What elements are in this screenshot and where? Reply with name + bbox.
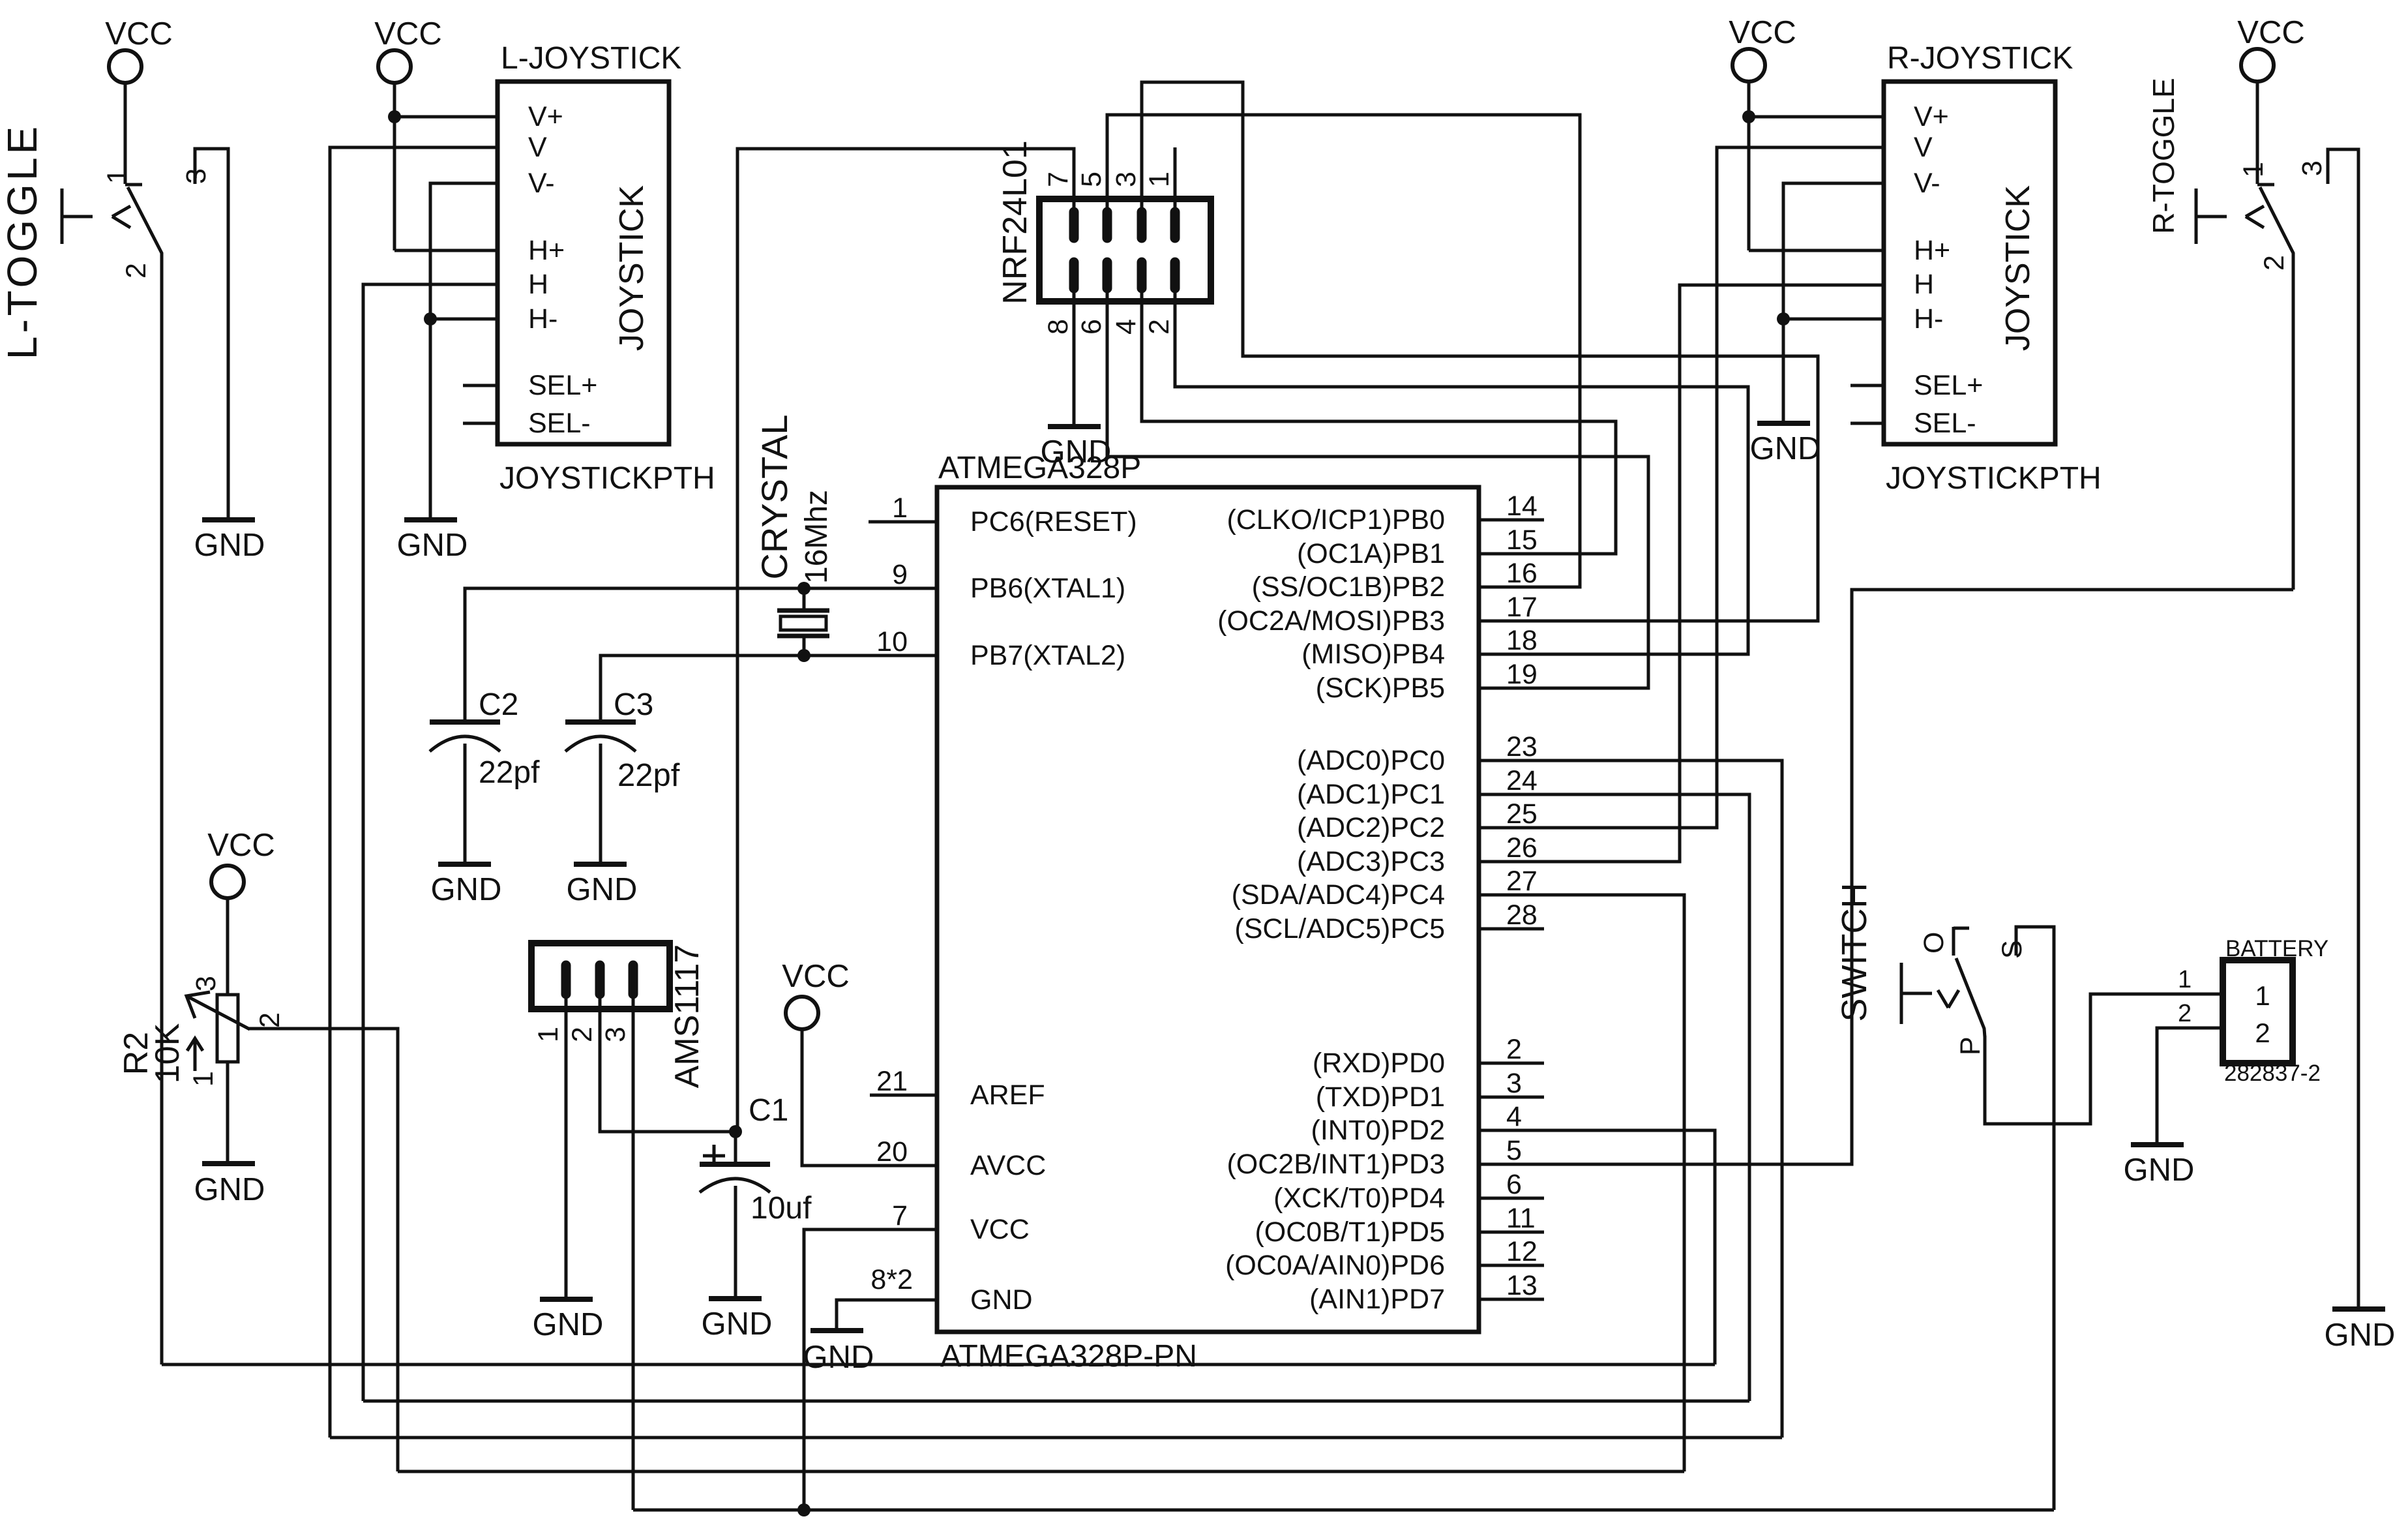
svg-text:20: 20 — [876, 1136, 908, 1168]
wire ATMEGA pin 4 PD2 to bus A — [1544, 1130, 1715, 1365]
wire H- junction to GND — [429, 319, 432, 517]
wire bus C L-JOYSTICK V to PC0 — [330, 1436, 1782, 1440]
wire H to left then down to bus B — [363, 284, 498, 1401]
switch lever — [1956, 958, 1985, 1037]
wire C3 to XTAL2 — [601, 656, 937, 722]
wire NRF pin 5 to ATMEGA pin 16 — [1107, 115, 1580, 587]
wire V to left then down to bus C — [330, 147, 498, 1438]
svg-text:H: H — [1914, 269, 1934, 300]
svg-text:AMS1117: AMS1117 — [668, 944, 706, 1089]
ATMEGA pin 21 AREF stub — [870, 1094, 937, 1097]
ATMEGA pin 25 PC2 stub — [1479, 826, 1544, 830]
ground L-JOYSTICK — [404, 517, 457, 522]
wire R V to ATMEGA pin 25 — [1544, 147, 1884, 828]
ATMEGA pin 14 PB0 stub — [1479, 519, 1544, 522]
ATMEGA pin 4 PD2 stub — [1479, 1129, 1544, 1132]
wire XTAL2 net pin 10 — [601, 654, 937, 657]
VCC port (R-TOGGLE) — [2241, 49, 2274, 82]
wire L-TOGGLE pin 3 to GND — [195, 149, 228, 517]
svg-text:(XCK/T0)PD4: (XCK/T0)PD4 — [1273, 1183, 1445, 1214]
svg-text:C3: C3 — [614, 687, 653, 722]
wire R2 wiper to bus D — [248, 1029, 398, 1471]
wire R-TOGGLE pin 3 to GND far bottom right — [2328, 149, 2358, 1306]
R2 adjust arrow — [194, 1041, 197, 1071]
wire C2 to GND — [464, 744, 467, 862]
ATMEGA pin 7 VCC stub — [870, 1228, 937, 1231]
R2 wiper arrow — [186, 996, 250, 1029]
ATMEGA pin 5 PD3 stub — [1479, 1163, 1544, 1166]
svg-text:9: 9 — [892, 559, 908, 590]
ATMEGA pin 20 AVCC stub — [870, 1164, 937, 1168]
svg-text:(SDA/ADC4)PC4: (SDA/ADC4)PC4 — [1232, 879, 1445, 911]
junction dot R VCC/V+ — [1742, 110, 1755, 123]
svg-text:18: 18 — [1506, 625, 1538, 656]
wire VCC to R-TOGGLE pin 1 — [2256, 82, 2259, 184]
svg-text:(SCL/ADC5)PC5: (SCL/ADC5)PC5 — [1234, 913, 1445, 944]
toggle R-TOGGLE lever — [2260, 187, 2293, 261]
svg-text:JOYSTICKPTH: JOYSTICKPTH — [499, 461, 715, 496]
svg-text:2: 2 — [2178, 1000, 2192, 1027]
svg-text:(MISO)PB4: (MISO)PB4 — [1301, 639, 1445, 670]
wire R2 pin 1 to GND — [226, 1062, 230, 1161]
svg-text:SEL+: SEL+ — [1914, 370, 1983, 401]
svg-text:5: 5 — [1506, 1135, 1522, 1166]
svg-text:2: 2 — [254, 1012, 286, 1028]
svg-text:(SCK)PB5: (SCK)PB5 — [1316, 672, 1445, 704]
wire VCC stem down to H+ — [1747, 82, 1751, 250]
svg-text:S: S — [1997, 940, 2028, 959]
toggle L-TOGGLE lever — [128, 187, 162, 261]
wire V- down to H- — [430, 183, 498, 319]
svg-text:V+: V+ — [1914, 101, 1949, 132]
svg-text:L-JOYSTICK: L-JOYSTICK — [501, 41, 681, 76]
switch pin O stub — [1952, 927, 1955, 956]
wire ATMEGA pin 27 PC4 to bus D — [1544, 895, 1684, 1471]
ATMEGA pin 1 PC6(RESET) stub — [869, 520, 937, 524]
ATMEGA pin 6 PD4 stub — [1479, 1197, 1544, 1200]
R-JOYSTICK SEL- stub — [1851, 422, 1884, 425]
toggle L-TOGGLE actuator — [61, 188, 64, 244]
junction dot crystal bottom — [797, 649, 810, 662]
svg-text:8*2: 8*2 — [870, 1264, 913, 1295]
svg-text:GND: GND — [194, 528, 265, 563]
wire C2 to XTAL1 — [465, 588, 937, 722]
wire switch P to battery pin 1 — [1985, 994, 2223, 1124]
svg-text:2: 2 — [121, 263, 152, 279]
ground ATMEGA 8*2 — [810, 1328, 863, 1333]
svg-text:SEL-: SEL- — [528, 408, 591, 439]
svg-text:H: H — [528, 269, 548, 300]
wire R H- — [1783, 318, 1884, 321]
wire H+ — [394, 249, 498, 252]
ATMEGA pin 9 PB6(XTAL1) stub — [869, 587, 937, 590]
svg-text:AVCC: AVCC — [970, 1150, 1046, 1181]
svg-text:(OC0A/AIN0)PD6: (OC0A/AIN0)PD6 — [1225, 1250, 1445, 1281]
svg-text:10uf: 10uf — [751, 1191, 812, 1226]
svg-text:5: 5 — [1076, 172, 1107, 187]
C1 plus sign — [703, 1154, 725, 1158]
svg-text:(OC2B/INT1)PD3: (OC2B/INT1)PD3 — [1226, 1149, 1445, 1180]
wire NRF pin 8 to GND — [1073, 288, 1076, 424]
svg-text:1: 1 — [2238, 162, 2269, 177]
wire R-TOGGLE pin 2 down — [2292, 260, 2295, 590]
svg-text:22pf: 22pf — [479, 755, 540, 790]
svg-text:(ADC3)PC3: (ADC3)PC3 — [1297, 846, 1445, 877]
svg-text:ATMEGA328P-PN: ATMEGA328P-PN — [940, 1339, 1197, 1374]
wire C3 to GND — [599, 744, 602, 862]
svg-text:(OC0B/T1)PD5: (OC0B/T1)PD5 — [1255, 1216, 1445, 1248]
ground battery — [2131, 1142, 2184, 1147]
svg-text:O: O — [1918, 932, 1950, 954]
junction dot bus E VCC — [797, 1503, 810, 1516]
svg-text:VCC: VCC — [374, 16, 441, 52]
svg-text:PB7(XTAL2): PB7(XTAL2) — [970, 640, 1125, 671]
wire ATMEGA pin 23 PC0 to bus C — [1544, 761, 1782, 1438]
svg-text:2: 2 — [2255, 1018, 2270, 1048]
ATMEGA pin 10 PB7(XTAL2) stub — [869, 654, 937, 657]
toggle R-TOGGLE pin 1 tick — [2257, 183, 2274, 187]
AMS1117 pin slots — [561, 965, 571, 994]
ground C2 — [438, 862, 491, 867]
svg-text:BATTERY: BATTERY — [2225, 936, 2328, 961]
svg-text:6: 6 — [1506, 1169, 1522, 1200]
svg-text:23: 23 — [1506, 731, 1538, 762]
connector NRF24L01 box — [1039, 199, 1211, 301]
svg-text:28: 28 — [1506, 899, 1538, 931]
svg-text:3: 3 — [1110, 172, 1142, 187]
VCC port (R-JOYSTICK) — [1732, 49, 1765, 82]
ATMEGA pin 19 PB5 stub — [1479, 687, 1544, 690]
svg-text:SEL+: SEL+ — [528, 370, 597, 401]
svg-text:6: 6 — [1076, 319, 1107, 335]
svg-text:3: 3 — [190, 976, 222, 991]
IC ATMEGA328P box — [937, 487, 1479, 1332]
ground AMS1117 pin 1 — [540, 1297, 593, 1302]
NRF24L01 pin slots bottom row — [1069, 262, 1079, 288]
svg-text:GND: GND — [2325, 1318, 2396, 1353]
ground C1 — [709, 1296, 762, 1301]
svg-text:22pf: 22pf — [617, 758, 680, 793]
svg-text:1: 1 — [188, 1071, 219, 1087]
wire V+ — [394, 115, 498, 119]
capacitor C2 — [430, 719, 500, 725]
svg-text:NRF24L01: NRF24L01 — [996, 140, 1034, 304]
wire R H to ATMEGA pin 26 — [1544, 285, 1884, 862]
svg-text:14: 14 — [1506, 490, 1538, 522]
regulator AMS1117 box — [531, 943, 670, 1009]
svg-text:ATMEGA328P: ATMEGA328P — [938, 451, 1141, 485]
svg-text:R-TOGGLE: R-TOGGLE — [2147, 78, 2180, 234]
L-JOYSTICK SEL+ stub — [463, 384, 498, 387]
wire R V- down to H- — [1783, 183, 1884, 319]
ATMEGA pin 15 PB1 stub — [1479, 552, 1544, 556]
wire bus D R2 wiper to PC4 — [398, 1470, 1684, 1473]
svg-text:7: 7 — [1043, 172, 1074, 187]
svg-text:VCC: VCC — [782, 959, 849, 994]
svg-text:GND: GND — [1750, 431, 1821, 466]
wire H- — [430, 318, 498, 321]
svg-text:(INT0)PD2: (INT0)PD2 — [1311, 1115, 1445, 1146]
svg-text:H-: H- — [1914, 303, 1943, 335]
svg-text:VCC: VCC — [2237, 15, 2304, 50]
ATMEGA pin 27 PC4 stub — [1479, 894, 1544, 897]
svg-text:JOYSTICK: JOYSTICK — [1999, 185, 2037, 352]
wire NRF pin 3 to ATMEGA pin 17 — [1142, 82, 1818, 621]
svg-text:(AIN1)PD7: (AIN1)PD7 — [1309, 1284, 1445, 1315]
svg-text:2: 2 — [567, 1027, 598, 1042]
wire NRF pin 1 stub up — [1174, 147, 1177, 212]
ATMEGA pin 18 PB4 stub — [1479, 653, 1544, 656]
svg-text:4: 4 — [1110, 319, 1142, 335]
svg-text:V: V — [528, 132, 547, 163]
wire VCC to R2 pin 3 — [226, 898, 230, 995]
svg-text:10K: 10K — [149, 1023, 186, 1083]
connector R-JOYSTICK box — [1884, 82, 2055, 444]
ground C3 — [574, 862, 627, 867]
VCC port (R2) — [211, 866, 244, 898]
ATMEGA pin 13 PD7 stub — [1479, 1298, 1544, 1301]
ground NRF pin 8 — [1048, 424, 1101, 429]
svg-text:282837-2: 282837-2 — [2224, 1061, 2321, 1086]
svg-text:PB6(XTAL1): PB6(XTAL1) — [970, 573, 1125, 604]
svg-text:SEL-: SEL- — [1914, 408, 1976, 439]
wire AMS1117 pin 2 to C1 junction — [600, 994, 736, 1132]
svg-text:V: V — [1914, 132, 1933, 163]
VCC port (AVCC) — [786, 997, 818, 1029]
svg-text:15: 15 — [1506, 524, 1538, 556]
svg-text:(CLKO/ICP1)PB0: (CLKO/ICP1)PB0 — [1226, 504, 1445, 535]
svg-text:PC6(RESET): PC6(RESET) — [970, 506, 1137, 537]
svg-text:CRYSTAL: CRYSTAL — [754, 414, 795, 579]
ATMEGA pin 24 PC1 stub — [1479, 793, 1544, 796]
wire AMS1117 pin 1 to GND — [565, 994, 568, 1297]
svg-text:(ADC0)PC0: (ADC0)PC0 — [1297, 745, 1445, 776]
VCC port (L-JOYSTICK) — [378, 50, 411, 83]
wire NRF pin 4 to ATMEGA pin 15 — [1142, 288, 1616, 554]
svg-text:1: 1 — [892, 492, 908, 524]
NRF24L01 pin slots top row — [1069, 212, 1079, 238]
junction dot crystal top — [797, 582, 810, 595]
junction dot R H-/V- — [1777, 312, 1790, 325]
wire AMS1117 pin 3 to bus E — [632, 994, 635, 1510]
svg-text:(RXD)PD0: (RXD)PD0 — [1313, 1048, 1445, 1079]
svg-text:11: 11 — [1506, 1203, 1536, 1234]
wire ATMEGA pin 5 PD3 to R-TOGGLE pin 2 — [1544, 590, 2293, 1164]
R-JOYSTICK SEL+ stub — [1851, 384, 1884, 387]
potentiometer R2 body — [217, 995, 238, 1062]
svg-text:JOYSTICKPTH: JOYSTICKPTH — [1886, 461, 2102, 496]
wire bus A L-TOGGLE to PD2 — [162, 1363, 1715, 1366]
svg-text:GND: GND — [533, 1307, 604, 1342]
ground R-TOGGLE pin 3 — [2332, 1306, 2385, 1312]
ATMEGA pin 26 PC3 stub — [1479, 860, 1544, 864]
svg-text:R-JOYSTICK: R-JOYSTICK — [1887, 41, 2073, 76]
svg-text:27: 27 — [1506, 866, 1538, 897]
svg-text:C2: C2 — [479, 687, 518, 722]
wire ATMEGA pin 24 PC1 to bus B — [1544, 794, 1749, 1401]
svg-text:H-: H- — [528, 303, 557, 335]
junction dot VCC/V+ — [388, 110, 401, 123]
svg-text:V+: V+ — [528, 101, 563, 132]
svg-text:L-TOGGLE: L-TOGGLE — [0, 123, 46, 359]
svg-text:(OC2A/MOSI)PB3: (OC2A/MOSI)PB3 — [1217, 605, 1445, 637]
ATMEGA pin 8 GND stub — [870, 1299, 937, 1302]
capacitor C1 polarized — [734, 1132, 737, 1164]
svg-text:VCC: VCC — [207, 828, 275, 863]
svg-text:VCC: VCC — [105, 16, 172, 52]
svg-text:19: 19 — [1506, 659, 1538, 690]
ATMEGA pin 17 PB3 stub — [1479, 620, 1544, 623]
ground L-TOGGLE pin 3 — [202, 517, 255, 522]
svg-text:C1: C1 — [749, 1093, 788, 1128]
svg-text:V-: V- — [528, 168, 555, 199]
svg-text:1: 1 — [1144, 172, 1175, 187]
svg-text:AREF: AREF — [970, 1079, 1045, 1111]
wire switch S to bus E — [2016, 927, 2054, 1510]
ground R-JOYSTICK — [1757, 421, 1810, 426]
wire battery pin 2 to GND — [2157, 1028, 2223, 1142]
svg-text:21: 21 — [876, 1066, 908, 1097]
svg-text:1: 1 — [533, 1027, 564, 1042]
svg-text:1: 1 — [102, 168, 133, 184]
wire R V+ — [1749, 115, 1884, 119]
ATMEGA pin 16 PB2 stub — [1479, 586, 1544, 589]
wire ATMEGA GND pin to ground — [837, 1300, 937, 1328]
svg-text:17: 17 — [1506, 592, 1538, 623]
svg-text:GND: GND — [194, 1172, 265, 1207]
svg-text:VCC: VCC — [970, 1214, 1030, 1245]
capacitor C3 — [565, 719, 636, 725]
svg-text:12: 12 — [1506, 1236, 1538, 1267]
svg-text:16Mhz: 16Mhz — [799, 490, 834, 584]
svg-text:3: 3 — [2297, 160, 2328, 176]
svg-text:V-: V- — [1914, 168, 1940, 199]
wire bus B L-JOYSTICK H to PC1 — [363, 1400, 1749, 1403]
svg-text:2: 2 — [1144, 319, 1175, 335]
junction dot H-/V- — [424, 312, 437, 325]
svg-text:(TXD)PD1: (TXD)PD1 — [1316, 1081, 1445, 1113]
ATMEGA pin 23 PC0 stub — [1479, 759, 1544, 762]
ground R2 — [202, 1161, 255, 1166]
svg-text:7: 7 — [892, 1200, 908, 1231]
ATMEGA pin 12 PD6 stub — [1479, 1264, 1544, 1267]
svg-text:25: 25 — [1506, 798, 1538, 830]
svg-text:1: 1 — [2255, 980, 2270, 1011]
svg-text:10: 10 — [876, 626, 908, 657]
ATMEGA pin 3 PD1 stub — [1479, 1096, 1544, 1099]
wire R H- junction to GND — [1782, 319, 1785, 421]
toggle R-TOGGLE actuator — [2195, 188, 2198, 244]
wire NRF pin 6 to ATMEGA pin 19 — [1107, 288, 1648, 688]
svg-text:GND: GND — [803, 1340, 874, 1375]
svg-text:H+: H+ — [528, 235, 565, 266]
switch actuator — [1900, 963, 1903, 1024]
ATMEGA pin 2 PD0 stub — [1479, 1062, 1544, 1065]
svg-text:(SS/OC1B)PB2: (SS/OC1B)PB2 — [1252, 571, 1445, 603]
junction dot C1 top — [729, 1125, 742, 1138]
svg-text:GND: GND — [2124, 1153, 2195, 1188]
svg-text:3: 3 — [600, 1027, 631, 1042]
svg-text:GND: GND — [431, 872, 502, 907]
L-JOYSTICK SEL- stub — [463, 422, 498, 425]
ATMEGA pin 11 PD5 stub — [1479, 1231, 1544, 1234]
svg-text:2: 2 — [1506, 1034, 1522, 1065]
wire L-TOGGLE pin 2 down to bus A — [160, 260, 164, 1365]
wire NRF pin 7 up left and down to C1 junction — [737, 149, 1074, 1132]
svg-text:(ADC1)PC1: (ADC1)PC1 — [1297, 779, 1445, 810]
svg-text:GND: GND — [970, 1284, 1033, 1316]
svg-text:2: 2 — [2259, 255, 2290, 271]
svg-text:GND: GND — [567, 872, 638, 907]
connector L-JOYSTICK box — [498, 82, 669, 444]
wire bus E power rail — [633, 1509, 2054, 1512]
svg-text:JOYSTICK: JOYSTICK — [613, 185, 651, 352]
svg-text:SWITCH: SWITCH — [1835, 883, 1874, 1022]
svg-text:1: 1 — [2178, 966, 2192, 993]
ATMEGA pin 28 PC5 stub — [1479, 927, 1544, 931]
svg-text:3: 3 — [1506, 1068, 1522, 1099]
svg-text:(ADC2)PC2: (ADC2)PC2 — [1297, 812, 1445, 843]
svg-text:VCC: VCC — [1729, 15, 1796, 50]
svg-text:GND: GND — [702, 1306, 773, 1342]
wire VCC to AVCC pin 20 — [802, 1029, 937, 1166]
wire VCC stem down to H+ — [393, 83, 396, 250]
svg-text:H+: H+ — [1914, 235, 1950, 266]
svg-text:(OC1A)PB1: (OC1A)PB1 — [1297, 538, 1445, 569]
VCC port (L-TOGGLE) — [109, 50, 141, 83]
svg-text:8: 8 — [1043, 319, 1074, 335]
wire NRF pin 2 to ATMEGA pin 18 — [1175, 288, 1748, 654]
crystal Q1 16Mhz — [803, 588, 806, 611]
wire XTAL1 net pin 9 — [465, 587, 937, 590]
wire R H+ — [1749, 249, 1884, 252]
wire VCC to L-TOGGLE pin 1 — [124, 83, 127, 184]
toggle L-TOGGLE pin 1 tick — [125, 183, 142, 187]
svg-text:4: 4 — [1506, 1101, 1522, 1132]
svg-text:P: P — [1955, 1036, 1986, 1055]
svg-text:26: 26 — [1506, 832, 1538, 864]
svg-text:13: 13 — [1506, 1270, 1538, 1301]
wire ATMEGA pin 7 VCC to bus E — [804, 1229, 937, 1510]
svg-text:16: 16 — [1506, 558, 1538, 589]
svg-text:GND: GND — [397, 528, 468, 563]
battery connector box — [2223, 960, 2293, 1063]
svg-text:24: 24 — [1506, 765, 1538, 796]
wire C1 to GND — [734, 1186, 737, 1296]
